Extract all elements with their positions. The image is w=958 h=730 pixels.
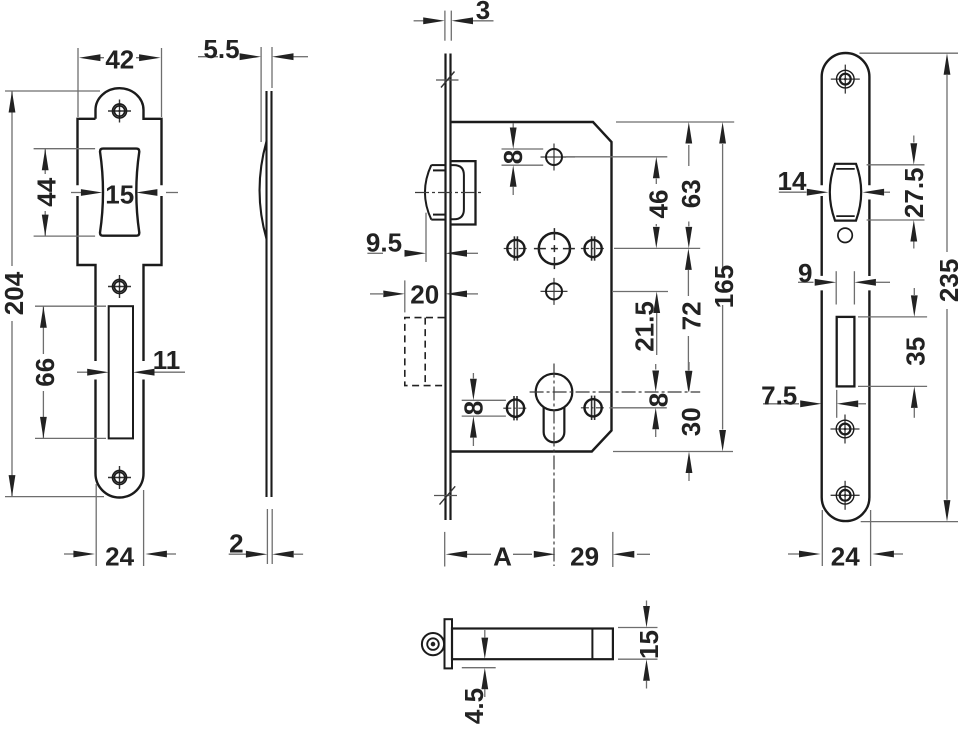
svg-text:204: 204 [0, 271, 29, 315]
svg-text:42: 42 [105, 44, 134, 74]
svg-text:9.5: 9.5 [366, 227, 402, 257]
svg-text:4.5: 4.5 [459, 688, 489, 724]
svg-text:165: 165 [709, 265, 739, 308]
svg-text:A: A [493, 541, 512, 571]
svg-text:15: 15 [634, 630, 664, 659]
svg-text:2: 2 [229, 529, 243, 559]
svg-text:8: 8 [643, 393, 673, 407]
svg-text:30: 30 [676, 407, 706, 436]
svg-text:24: 24 [105, 541, 134, 571]
svg-text:66: 66 [30, 358, 60, 387]
svg-text:72: 72 [676, 301, 706, 330]
svg-text:44: 44 [32, 177, 62, 206]
svg-text:24: 24 [831, 541, 860, 571]
svg-text:5.5: 5.5 [203, 34, 239, 64]
svg-text:14: 14 [778, 166, 807, 196]
svg-text:8: 8 [458, 401, 488, 415]
svg-text:27.5: 27.5 [899, 167, 929, 218]
svg-text:3: 3 [476, 0, 490, 25]
svg-text:235: 235 [934, 259, 958, 302]
svg-text:63: 63 [676, 179, 706, 208]
svg-text:7.5: 7.5 [761, 380, 797, 410]
svg-text:46: 46 [643, 190, 673, 219]
svg-text:35: 35 [901, 337, 931, 366]
svg-text:9: 9 [798, 258, 812, 288]
svg-text:29: 29 [570, 541, 599, 571]
svg-text:21.5: 21.5 [630, 301, 660, 352]
svg-text:8: 8 [498, 150, 528, 164]
svg-text:11: 11 [153, 345, 181, 375]
svg-text:20: 20 [410, 280, 439, 310]
svg-text:15: 15 [105, 179, 134, 209]
